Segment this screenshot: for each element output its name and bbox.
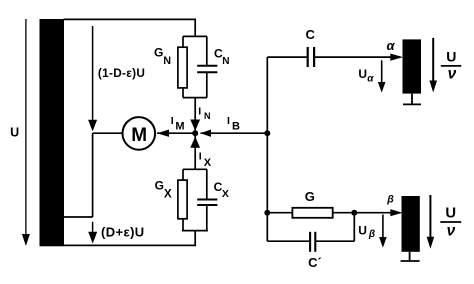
- wire right vertical: [266, 57, 268, 213]
- arrow IM: [157, 130, 195, 137]
- node junction beta right: [351, 210, 357, 216]
- wire to beta: [354, 209, 402, 216]
- wire IB: [201, 130, 268, 137]
- wire to capacitor C: [267, 56, 307, 58]
- capacitor CN: [197, 66, 217, 72]
- svg-text:N: N: [163, 55, 171, 67]
- wire C' branch left: [266, 213, 268, 242]
- svg-text:I: I: [227, 115, 230, 127]
- svg-text:X: X: [164, 188, 172, 200]
- svg-text:ν: ν: [448, 65, 457, 82]
- arrow (1-D-e)U: [88, 26, 97, 131]
- svg-text:I: I: [171, 115, 174, 127]
- svg-text:ν: ν: [447, 222, 456, 239]
- capacitor CX: [197, 200, 217, 206]
- wire G to node: [333, 212, 354, 214]
- wire IX: [194, 133, 196, 169]
- resistor G: [292, 208, 332, 218]
- source bar (black rectangle): [40, 19, 65, 246]
- svg-text:β: β: [386, 194, 394, 206]
- wire tap horizontal: [64, 216, 93, 218]
- wire motor left: [93, 132, 123, 134]
- wire: [316, 240, 354, 242]
- svg-text:β: β: [368, 229, 375, 240]
- arrow IN: [190, 120, 200, 131]
- wire C' branch right: [353, 213, 355, 242]
- arrow IX: [190, 137, 200, 148]
- wire bottom rail: [64, 231, 195, 246]
- arrow U/v beta: [427, 195, 435, 249]
- svg-text:G: G: [155, 179, 164, 193]
- wire: [182, 169, 184, 180]
- svg-text:U: U: [358, 223, 367, 237]
- bottom bar GN network: [183, 97, 207, 99]
- arrow U alpha: [378, 60, 386, 92]
- arrow U/v alpha: [429, 38, 437, 93]
- svg-text:G: G: [154, 46, 163, 60]
- svg-text:U: U: [10, 125, 19, 139]
- svg-text:I: I: [198, 106, 201, 118]
- wire: [206, 72, 208, 97]
- beta pickup (black rect): [402, 196, 420, 252]
- wire to resistor G: [267, 212, 292, 214]
- node junction right: [264, 130, 270, 136]
- alpha pickup (black rect): [403, 39, 422, 93]
- resistor GX: [178, 180, 187, 219]
- svg-text:U: U: [446, 49, 456, 65]
- svg-text:N: N: [222, 56, 229, 67]
- svg-text:B: B: [232, 120, 240, 132]
- svg-text:M: M: [131, 125, 147, 146]
- arrow U beta: [379, 215, 387, 248]
- wire: [182, 219, 184, 231]
- svg-text:G: G: [305, 189, 315, 204]
- svg-text:N: N: [204, 111, 211, 121]
- svg-text:X: X: [204, 157, 212, 169]
- svg-text:α: α: [387, 38, 396, 53]
- capacitor C: [308, 47, 314, 67]
- resistor GN network top bar: [183, 35, 207, 37]
- svg-text:X: X: [222, 188, 229, 200]
- wire: [206, 169, 208, 199]
- resistor GN: [178, 47, 187, 88]
- wire top rail: [64, 19, 196, 36]
- node junction: [192, 130, 198, 136]
- svg-text:C´: C´: [308, 255, 322, 270]
- bottom bar GX network: [182, 230, 208, 232]
- svg-text:U: U: [358, 67, 367, 81]
- wire IN: [194, 98, 196, 134]
- svg-text:I: I: [199, 150, 202, 162]
- wire: [206, 36, 208, 65]
- wire: [267, 240, 309, 242]
- svg-text:C: C: [306, 27, 316, 42]
- wire: [182, 88, 184, 98]
- ground beta: [401, 252, 420, 261]
- wire tap riser: [92, 133, 94, 217]
- motor M: [123, 117, 156, 150]
- wire: [206, 205, 208, 231]
- resistor GX network top bar: [183, 168, 207, 170]
- arrow (D+e)U: [88, 222, 97, 244]
- ground alpha: [403, 94, 421, 105]
- wire: [182, 36, 184, 47]
- wire C to alpha: [315, 54, 403, 61]
- node junction beta left: [264, 210, 270, 216]
- capacitor C': [310, 232, 315, 252]
- svg-text:(1-D-ε)U: (1-D-ε)U: [98, 66, 145, 80]
- svg-text:(D+ε)U: (D+ε)U: [101, 225, 145, 240]
- svg-text:α: α: [367, 74, 374, 85]
- voltage arrow U (left): [22, 19, 30, 246]
- svg-text:U: U: [445, 205, 456, 221]
- svg-text:M: M: [175, 120, 184, 132]
